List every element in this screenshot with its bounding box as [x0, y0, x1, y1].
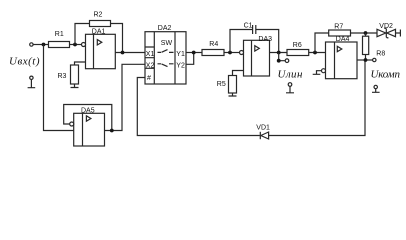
node Y outputs	[192, 51, 196, 55]
switch contact 2	[158, 64, 174, 67]
input common terminal	[30, 76, 33, 79]
node DA4 output	[364, 58, 368, 62]
node integrator input	[228, 51, 232, 55]
switch contact 1	[158, 50, 174, 53]
svg-text:R3: R3	[58, 73, 67, 80]
Ukomp common terminal	[374, 85, 377, 88]
wire R1 to DA1 input	[70, 44, 82, 46]
resistor R8	[363, 36, 369, 54]
resistor R7	[329, 30, 351, 36]
svg-text:X2: X2	[146, 62, 155, 69]
wire R7 to VD2 node	[351, 32, 378, 34]
node Ulin tap	[277, 59, 281, 63]
ground under R5	[229, 93, 237, 96]
resistor R2	[90, 21, 111, 27]
wire DA1 output to DA2 X1	[115, 52, 145, 54]
svg-text:R5: R5	[217, 81, 226, 88]
wire DA4 output	[357, 59, 373, 61]
DA5 inverting input circle	[70, 122, 74, 126]
svg-text:Uвх(t): Uвх(t)	[9, 56, 40, 68]
wire R4 to DA3 input	[224, 52, 240, 54]
svg-text:Y2: Y2	[176, 62, 185, 69]
analog switch U DA2	[145, 25, 186, 84]
op-amp U DA4	[326, 36, 358, 78]
wire DA3 output to R6	[270, 52, 288, 54]
svg-text:R7: R7	[334, 24, 343, 31]
resistor R4	[202, 50, 224, 56]
ground under Ulin	[286, 86, 294, 93]
diode VD1	[256, 124, 270, 139]
svg-text:#: #	[147, 75, 151, 82]
wire Y1 to R4	[186, 52, 202, 54]
wire DA5 feedback loop output to inverting input	[64, 105, 112, 131]
svg-text:Uкомп: Uкомп	[371, 69, 401, 81]
DA4 inverting input circle grounded	[322, 69, 326, 73]
node DA5 output	[110, 129, 114, 133]
svg-text:Uлин: Uлин	[278, 68, 303, 80]
op-amp U DA3	[244, 36, 273, 76]
node comparator input	[313, 51, 317, 55]
svg-text:Y1: Y1	[176, 51, 185, 58]
node R7 VD2 R8	[364, 31, 368, 35]
terminal Ulin	[285, 59, 289, 63]
capacitor C1	[244, 22, 256, 34]
svg-text:VD2: VD2	[379, 23, 393, 30]
resistor R1	[49, 42, 70, 48]
Ulin common terminal	[288, 83, 292, 87]
resistor R3	[71, 65, 79, 84]
svg-text:DA3: DA3	[258, 36, 272, 43]
svg-text:DA4: DA4	[336, 36, 350, 43]
node DA3 output	[277, 51, 281, 55]
svg-text:DA1: DA1	[92, 29, 106, 36]
svg-text:R1: R1	[55, 31, 64, 38]
wire node up to R2	[75, 24, 90, 45]
wire C1 feedback right side	[256, 30, 279, 53]
input terminal Uvx	[30, 43, 33, 46]
ground under R3	[71, 84, 79, 88]
svg-text:SW: SW	[161, 40, 173, 47]
wire input to R1	[33, 44, 48, 46]
wire down to Ulin terminal	[279, 53, 286, 61]
svg-text:R8: R8	[376, 51, 385, 58]
wire DA2 hash control to bottom rail	[137, 78, 259, 136]
wire DA5 output to X2 riser	[105, 64, 146, 130]
svg-text:DA5: DA5	[81, 107, 95, 114]
zener diode VD2	[377, 23, 400, 38]
wire VD1 to comparator output riser	[269, 60, 365, 136]
wire R5 to DA3 noninverting input	[233, 71, 244, 76]
node DA1 output	[121, 51, 125, 55]
DA1 inverting input circle	[82, 43, 86, 47]
resistor R5	[229, 76, 237, 94]
svg-text:VD1: VD1	[256, 124, 270, 131]
ground under Ukomp	[372, 89, 380, 93]
svg-text:R4: R4	[209, 41, 218, 48]
svg-text:X1: X1	[146, 51, 155, 58]
node input junction	[42, 43, 46, 47]
wire input node down to DA5 noninverting input	[44, 45, 74, 131]
wire R6 to DA4 input	[309, 52, 326, 54]
svg-text:R6: R6	[293, 42, 302, 49]
node after R1	[73, 43, 77, 47]
wire input node up to R7	[315, 33, 329, 53]
svg-text:R2: R2	[94, 12, 103, 19]
wire R8 stubs	[365, 33, 367, 60]
terminal Ukomp	[373, 58, 376, 61]
DA3 inverting input circle	[240, 51, 244, 55]
wire DA4 inverting input to ground	[313, 71, 322, 75]
wire DA1 noninverting input to R3	[75, 62, 86, 65]
wire C1 feedback left side	[230, 30, 253, 53]
ground under Uvx	[28, 80, 36, 88]
svg-text:DA2: DA2	[158, 25, 172, 32]
wire R2 right down to DA1 output	[111, 24, 123, 53]
op-amp U DA5	[74, 107, 105, 146]
svg-text:C1: C1	[244, 22, 253, 29]
op-amp U DA1	[86, 29, 116, 69]
resistor R6	[287, 50, 309, 56]
wire Y2 up to Y1 net	[186, 53, 194, 64]
